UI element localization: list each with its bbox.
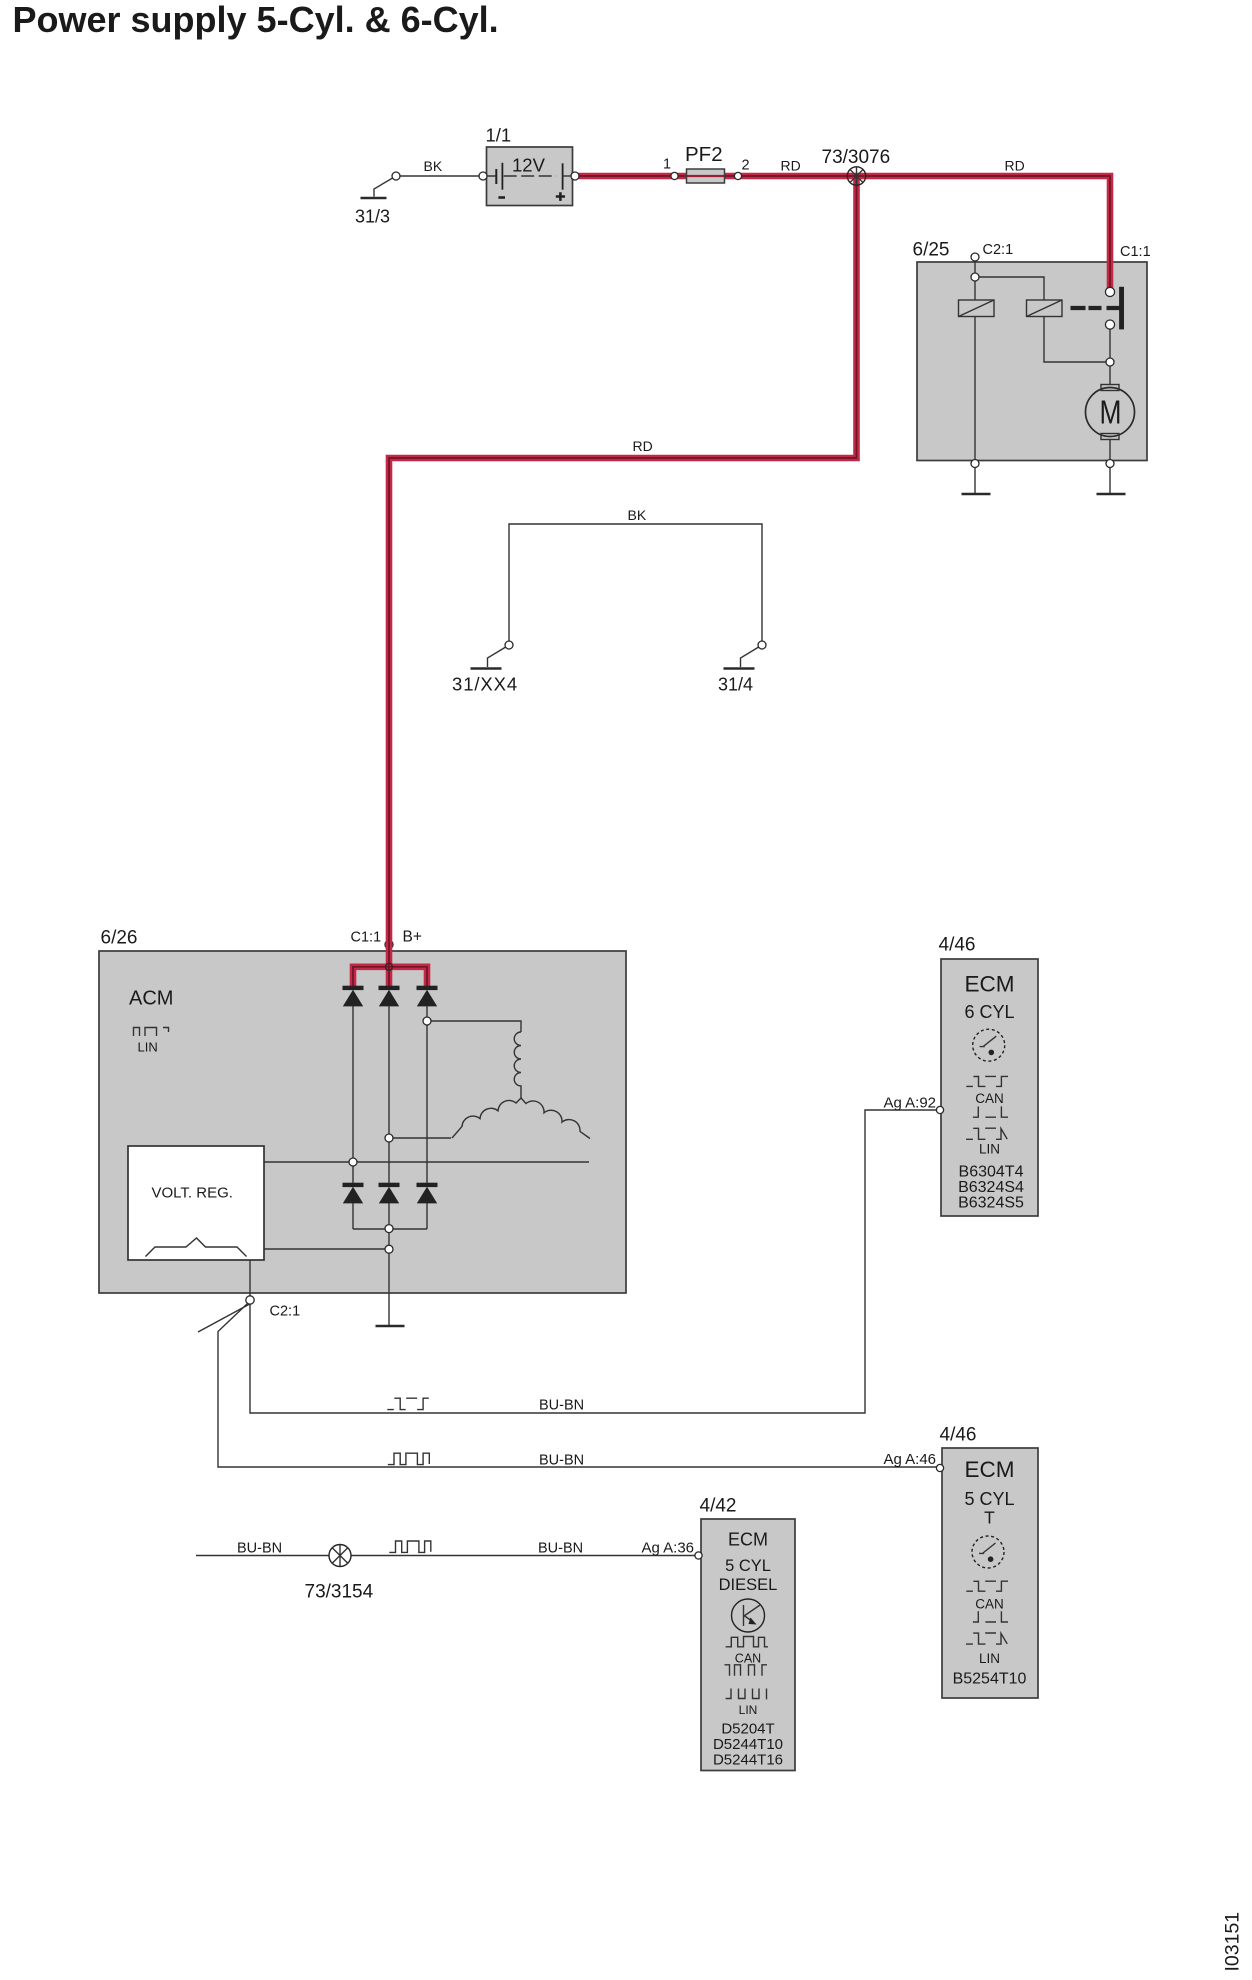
svg-text:B+: B+ — [403, 929, 422, 946]
svg-text:D5244T10: D5244T10 — [713, 1736, 783, 1753]
svg-text:Ag A:92: Ag A:92 — [883, 1095, 936, 1112]
svg-text:B6324S5: B6324S5 — [958, 1195, 1024, 1212]
svg-text:Ag A:46: Ag A:46 — [883, 1451, 936, 1468]
svg-text:BK: BK — [628, 507, 647, 523]
svg-text:CAN: CAN — [975, 1597, 1004, 1612]
svg-text:1/1: 1/1 — [486, 125, 512, 146]
svg-text:2: 2 — [742, 158, 750, 174]
svg-text:4/46: 4/46 — [939, 935, 976, 956]
svg-text:31/3: 31/3 — [355, 207, 390, 227]
svg-text:C2:1: C2:1 — [270, 1304, 301, 1320]
svg-text:RD: RD — [633, 438, 653, 454]
svg-text:BU-BN: BU-BN — [539, 1398, 584, 1414]
svg-text:4/46: 4/46 — [940, 1425, 977, 1446]
svg-text:M: M — [1100, 395, 1122, 431]
svg-text:LIN: LIN — [979, 1651, 1000, 1666]
svg-text:D5244T16: D5244T16 — [713, 1752, 783, 1769]
svg-text:T: T — [984, 1508, 995, 1528]
svg-text:BK: BK — [424, 158, 443, 174]
svg-text:ACM: ACM — [129, 988, 173, 1010]
svg-text:Power supply 5-Cyl. & 6-Cyl.: Power supply 5-Cyl. & 6-Cyl. — [13, 0, 499, 40]
svg-text:DIESEL: DIESEL — [719, 1576, 778, 1594]
svg-text:4/42: 4/42 — [700, 1496, 737, 1517]
svg-text:CAN: CAN — [975, 1091, 1004, 1106]
svg-text:LIN: LIN — [739, 1703, 758, 1717]
svg-text:LIN: LIN — [979, 1142, 1000, 1157]
svg-text:LIN: LIN — [138, 1040, 158, 1055]
svg-text:1: 1 — [663, 157, 671, 173]
svg-text:73/3154: 73/3154 — [305, 1582, 374, 1603]
svg-text:I03151: I03151 — [1222, 1912, 1244, 1972]
svg-text:B5254T10: B5254T10 — [953, 1671, 1027, 1688]
svg-text:6 CYL: 6 CYL — [964, 1002, 1014, 1022]
svg-text:ECM: ECM — [965, 1457, 1015, 1482]
svg-text:B6304T4: B6304T4 — [959, 1164, 1024, 1181]
svg-text:BU-BN: BU-BN — [538, 1541, 583, 1557]
svg-text:C1:1: C1:1 — [1120, 244, 1151, 260]
svg-text:31/XX4: 31/XX4 — [452, 674, 518, 695]
svg-text:ECM: ECM — [965, 972, 1015, 997]
svg-text:C1:1: C1:1 — [351, 930, 382, 946]
svg-text:BU-BN: BU-BN — [237, 1541, 282, 1557]
svg-text:5 CYL: 5 CYL — [964, 1489, 1014, 1509]
svg-text:PF2: PF2 — [685, 143, 723, 166]
svg-text:C2:1: C2:1 — [983, 242, 1014, 258]
svg-text:RD: RD — [1005, 158, 1025, 174]
svg-text:73/3076: 73/3076 — [822, 147, 891, 168]
svg-text:12V: 12V — [512, 155, 546, 176]
svg-text:6/26: 6/26 — [101, 928, 138, 949]
svg-text:31/4: 31/4 — [718, 675, 753, 695]
svg-text:5 CYL: 5 CYL — [725, 1557, 771, 1575]
svg-text:CAN: CAN — [735, 1652, 761, 1666]
svg-text:6/25: 6/25 — [913, 240, 950, 261]
svg-text:D5204T: D5204T — [721, 1721, 774, 1738]
svg-text:RD: RD — [781, 158, 801, 174]
svg-text:ECM: ECM — [728, 1530, 768, 1550]
svg-text:Ag A:36: Ag A:36 — [641, 1540, 694, 1557]
svg-text:VOLT. REG.: VOLT. REG. — [152, 1185, 233, 1202]
svg-text:B6324S4: B6324S4 — [958, 1179, 1024, 1196]
svg-text:BU-BN: BU-BN — [539, 1453, 584, 1469]
